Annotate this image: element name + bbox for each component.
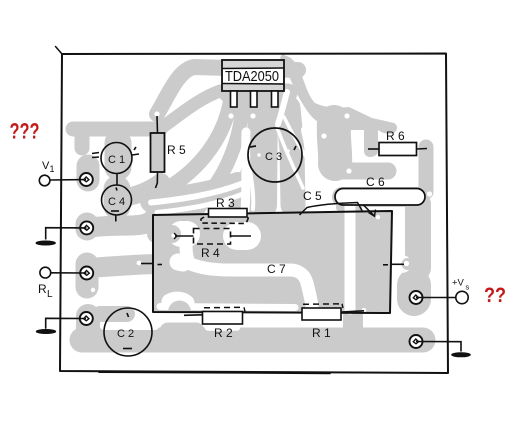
- C7 box: [153, 211, 392, 313]
- svg-text:L: L: [47, 289, 53, 300]
- pad gnd2: [80, 312, 93, 325]
- terminal V1: [39, 175, 86, 186]
- pad4 blob: [76, 316, 100, 336]
- svg-text:C 1: C 1: [108, 154, 125, 166]
- trace C6 underlay: [342, 187, 418, 207]
- pin 1: [231, 91, 238, 107]
- trace pad2 wave: [88, 196, 167, 228]
- capacitor C4: [102, 174, 132, 222]
- pad gnd1: [80, 221, 93, 234]
- etch channel around R4 left: [181, 221, 187, 247]
- resistor R6: [368, 143, 427, 156]
- svg-text:C 5: C 5: [303, 189, 322, 203]
- trace R5 hole over chip top: [157, 67, 298, 114]
- bottom ground bus: [82, 328, 423, 353]
- pad1 blob: [77, 166, 100, 180]
- copper bump on bottom edge: [168, 301, 191, 313]
- etch slit: [278, 92, 287, 124]
- ground 3 (right): [416, 342, 470, 357]
- etch channel bottom-left blob: [170, 300, 186, 303]
- ground 1 (left upper): [36, 228, 87, 245]
- resistor R1: [302, 304, 364, 320]
- capacitor C6: [335, 189, 425, 217]
- svg-text:R 5: R 5: [167, 143, 186, 157]
- svg-text:???: ???: [10, 119, 40, 144]
- fan trace 4 / C3 column: [262, 102, 263, 205]
- etch slit: [250, 170, 253, 209]
- trace right rail: [405, 204, 431, 268]
- pad3 blob: [76, 264, 99, 287]
- svg-text:+V: +V: [452, 278, 465, 289]
- fan trace 3: [235, 100, 255, 208]
- pin 2: [251, 91, 258, 107]
- fan trace filler: [199, 185, 212, 211]
- right mass: [280, 54, 397, 157]
- pad V1 in: [80, 173, 93, 186]
- etch slit: [245, 132, 246, 210]
- svg-text:R: R: [38, 282, 47, 296]
- C7 minus marks and stubs: [141, 264, 404, 265]
- trace fan bottom band: [152, 184, 238, 201]
- svg-text:R 4: R 4: [201, 246, 220, 260]
- ground 2 (left lower): [36, 318, 86, 333]
- svg-text:R 3: R 3: [216, 196, 235, 210]
- etch channel vertical: [345, 206, 356, 309]
- svg-text:TDA2050: TDA2050: [225, 68, 279, 85]
- fan trace 2: [167, 100, 243, 212]
- board outline: [60, 54, 448, 374]
- svg-text:s: s: [466, 283, 470, 292]
- chip copper underlay: [228, 84, 288, 103]
- svg-text:C 7: C 7: [267, 262, 286, 276]
- etch ring around C7 stub hole: [394, 255, 412, 273]
- etch channel horizontal to bend: [188, 263, 312, 306]
- fan trace pin1: [163, 98, 231, 191]
- etch channel bottom slit: [160, 307, 295, 308]
- pad gnd3: [410, 335, 423, 348]
- corner overshoot: [56, 47, 63, 55]
- svg-text:C 3: C 3: [265, 151, 282, 163]
- etch channel finger down: [186, 246, 189, 263]
- etch channel around R4 right: [237, 222, 247, 250]
- pad +Vs: [410, 291, 423, 304]
- TDA2050 chip U1: [222, 60, 284, 107]
- trace +Vs pad blob: [397, 285, 431, 299]
- svg-text:C 2: C 2: [117, 328, 134, 340]
- resistor R3: [201, 209, 248, 224]
- pin 3: [272, 91, 279, 107]
- etch slit fan bottom A: [151, 184, 241, 203]
- trace to chip lower-left: [160, 91, 220, 129]
- svg-text:R 2: R 2: [214, 326, 233, 340]
- capacitor C3: [248, 128, 302, 182]
- trace input bus: [73, 122, 160, 137]
- pad2 blob: [76, 224, 99, 229]
- trace bulge left of R2: [168, 323, 196, 340]
- trace C4 blob: [104, 189, 131, 206]
- terminal +Vs: [416, 291, 468, 303]
- trace pad3 arm to C7: [88, 264, 160, 268]
- trace C1 riser: [105, 143, 132, 167]
- resistor R5: [151, 116, 165, 188]
- pad RL: [80, 267, 93, 280]
- copper knob with hole: [402, 258, 414, 270]
- svg-text:1: 1: [50, 164, 55, 174]
- resistor R2: [184, 307, 245, 324]
- etch slit: [284, 117, 309, 161]
- copper stub to R4 lead: [156, 225, 172, 243]
- etch slit fan bottom B: [157, 194, 243, 213]
- etch white at C7 stub: [178, 262, 183, 263]
- trace mass to C6 connector: [334, 122, 335, 164]
- svg-text:C 6: C 6: [366, 175, 385, 189]
- trace R1 drop: [343, 316, 363, 330]
- trace above C6: [338, 163, 388, 180]
- svg-text:C 4: C 4: [108, 196, 125, 208]
- white slits in fan: [151, 92, 311, 213]
- fan trace 5 C3 right: [288, 108, 293, 205]
- etch slit: [305, 130, 311, 190]
- trace stub in C2: [100, 306, 127, 322]
- trace R6 right to C6: [419, 147, 434, 192]
- trace tab below C6 left: [342, 201, 356, 213]
- resistor R4 (dashed, on copper side): [174, 229, 251, 245]
- terminal RL: [40, 267, 87, 278]
- trace stub left of C1: [75, 136, 90, 148]
- capacitor C2: [104, 308, 152, 356]
- capacitor C1: [92, 143, 139, 174]
- svg-text:R 6: R 6: [386, 129, 405, 143]
- white halo under R2: [208, 324, 237, 331]
- copper plane: [153, 211, 392, 313]
- etch slit through C2: [104, 322, 155, 330]
- svg-text:??: ??: [484, 284, 506, 307]
- etch slit: [277, 127, 303, 188]
- svg-text:R 1: R 1: [312, 326, 331, 340]
- trace C4 to fan: [117, 182, 161, 199]
